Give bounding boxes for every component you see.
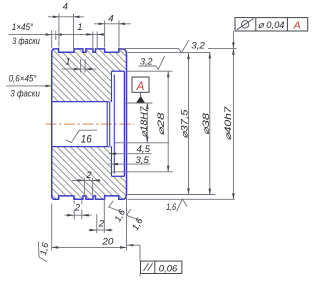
dim line d28 (167, 71, 169, 172)
dim 4b ext lines (105, 21, 119, 48)
bore step face line 2 (109, 102, 111, 147)
svg-text:1,6: 1,6 (166, 202, 176, 213)
svg-text:1: 1 (77, 22, 82, 33)
dim 4b line (94, 23, 131, 25)
dim line d38 (209, 52, 211, 194)
parallelism symbol (144, 263, 153, 271)
roughness 1,6 rotated no.2 (127, 209, 141, 221)
hatching lower section (52, 146, 127, 199)
svg-text:2: 2 (85, 170, 92, 181)
datum A leader (140, 92, 142, 96)
chamfer ext lines (52, 30, 56, 48)
svg-text:⌀40h7: ⌀40h7 (223, 105, 233, 140)
FCF runout frame (235, 18, 308, 31)
dim 4 ext lines (59, 14, 74, 51)
svg-text:1×45°: 1×45° (12, 22, 34, 33)
dim 20 ext lines (52, 197, 127, 251)
centerline (axis) (46, 123, 135, 125)
svg-text:1,6: 1,6 (130, 216, 145, 232)
chamfer 0,6 arrow (46, 85, 52, 88)
dim 1 ext lines (93, 32, 97, 50)
recess relief wall upper (111, 71, 113, 102)
d18H7 upper ext line (datum line) (125, 102, 153, 104)
dim line d40h7 with FCF leader (232, 31, 234, 199)
svg-text:A: A (136, 81, 145, 93)
dim line d37,5 (188, 53, 190, 194)
roughness 1,6 rotated no.3 (38, 241, 47, 261)
svg-text:4: 4 (63, 2, 68, 13)
svg-text:2: 2 (74, 203, 81, 214)
dim 1 interior ext lines (81, 59, 86, 73)
svg-text:⌀38: ⌀38 (201, 113, 211, 135)
d18H7 lower ext line (115, 142, 169, 144)
dim 4 line (48, 16, 84, 18)
dim 2 interior line (72, 179, 101, 181)
hatching upper section (52, 49, 127, 102)
chamfer leader arrow (46, 33, 62, 36)
chamfer leader and dim 1 line (9, 34, 105, 36)
d37.5/d38 lower ext line (128, 194, 215, 196)
svg-text:1: 1 (65, 57, 70, 68)
bore 18H7 lower line (52, 146, 109, 148)
svg-text:A: A (293, 20, 301, 32)
parallelism leader arrow (127, 244, 134, 247)
svg-text:⌀37,5: ⌀37,5 (180, 108, 190, 138)
d28 lower ext line (112, 171, 173, 173)
dim 20 arrows (52, 246, 127, 249)
svg-text:3 фаски: 3 фаски (10, 88, 40, 99)
svg-text:1,6: 1,6 (38, 242, 50, 256)
dim 2c ext lines (97, 199, 105, 234)
dim 2 interior ext lines (84, 178, 92, 195)
recess relief wall lower (111, 146, 113, 176)
chamfer 0,6 leader (6, 85, 51, 87)
dim 3,5 leader line (109, 163, 151, 165)
dim 1 interior arrows (74, 68, 92, 71)
dim 1 arrows (86, 33, 103, 36)
FCF symbol slash (237, 19, 254, 30)
dim 20 line (52, 246, 127, 248)
parallelism frame left edge stub (139, 274, 141, 277)
dim 2b ext lines (74, 201, 82, 220)
dim 4b arrows (99, 23, 125, 26)
svg-text:4,5: 4,5 (137, 144, 151, 155)
datum A box (132, 77, 149, 92)
dim 4,5 leader line (109, 153, 152, 155)
part outline (section profile) (52, 49, 127, 199)
dim 4,5 and 3,5 leader arrows (110, 152, 118, 165)
svg-text:1,6: 1,6 (112, 208, 127, 224)
bore step face line 1 (106, 102, 108, 147)
dim 2 interior arrows (77, 179, 99, 182)
svg-text:0,6×45°: 0,6×45° (9, 74, 37, 85)
svg-text:16: 16 (81, 133, 93, 145)
svg-text:⌀18H7: ⌀18H7 (139, 105, 149, 137)
svg-text:0,06: 0,06 (159, 264, 178, 275)
dim 1 interior line (62, 68, 97, 70)
recess ceiling (d28 upper) (112, 70, 125, 72)
dim 2b line (65, 214, 92, 216)
svg-text:2: 2 (98, 218, 105, 229)
svg-text:⌀28: ⌀28 (156, 113, 166, 136)
roughness 3,2 on d40 ext line (179, 40, 189, 53)
dim 4 arrows (53, 15, 80, 18)
bore 18H7 upper line (52, 101, 109, 103)
FCF symbol circle (242, 21, 249, 28)
dim 2c arrows (90, 229, 112, 232)
svg-text:⌀ 0,04: ⌀ 0,04 (258, 20, 285, 31)
parallelism frame (141, 261, 182, 273)
d40h7 lower ext line (128, 198, 235, 200)
svg-text:20: 20 (101, 236, 114, 247)
roughness 1,6 rotated no.1 (109, 201, 123, 213)
recess floor (d28 lower) (112, 175, 125, 177)
recess inner step vertical (113, 75, 115, 174)
svg-text:3,2: 3,2 (191, 41, 205, 52)
recess wall (rim inner face) (123, 71, 125, 176)
d28 upper ext line (127, 70, 173, 72)
dim 2c line (89, 229, 113, 231)
roughness 16 in bore (65, 130, 97, 142)
svg-text:3,5: 3,5 (135, 155, 149, 166)
dim 2b arrows (67, 214, 89, 217)
parallelism leader (127, 245, 140, 261)
svg-text:4: 4 (108, 14, 113, 25)
datum A triangle (136, 96, 145, 103)
d40h7 upper ext line (121, 48, 236, 50)
svg-text:3 фаски: 3 фаски (12, 36, 40, 47)
dim line d18H7 (146, 103, 148, 143)
d37.5/d38 upper ext line (127, 52, 210, 54)
